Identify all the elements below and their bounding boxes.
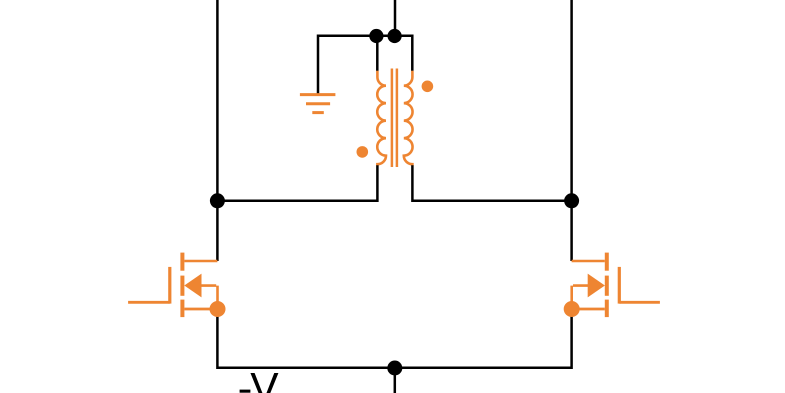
transformer phase dot (right winding, top) bbox=[422, 81, 434, 93]
node: junction dot on bottom rail bbox=[387, 361, 402, 376]
transformer T1 core bbox=[392, 69, 397, 168]
transformer T1 primary (left winding) bbox=[377, 71, 386, 166]
transistor Q1 (left N-MOSFET) bbox=[128, 253, 225, 318]
node: junction dot left rail / winding return bbox=[210, 193, 225, 208]
ground bbox=[300, 95, 336, 113]
label: -V net name (cut off at bottom edge) bbox=[240, 366, 280, 393]
node: junction dot right rail / winding return bbox=[564, 193, 579, 208]
node: junction dot at center-tap feed bbox=[388, 29, 402, 43]
transistor Q2 (right N-MOSFET) bbox=[564, 253, 660, 318]
transformer phase dot (left winding, bottom) bbox=[357, 146, 369, 158]
wire: left winding top lead bbox=[376, 36, 379, 71]
wire: ground stem and top horizontal tie to transformer winding tops bbox=[318, 36, 412, 96]
wire: right winding bottom lead over to right rail bbox=[412, 165, 571, 201]
wire: left rail vertical from top edge down to Q1 drain bbox=[216, 0, 219, 261]
wire: right rail vertical from top edge down to Q2 drain bbox=[570, 0, 573, 261]
wire: center-tap feed vertical from top edge bbox=[394, 0, 397, 36]
wire: Q1 source down, bottom rail, Q2 source down bbox=[217, 309, 571, 368]
transformer T1 secondary (right winding) bbox=[404, 71, 413, 166]
svg-text:V: V bbox=[250, 366, 279, 393]
wire: left winding bottom lead over to left rail bbox=[217, 165, 377, 201]
node: junction dot left of center tap bbox=[369, 29, 383, 43]
wire: bottom center drop to -V bbox=[394, 368, 397, 393]
